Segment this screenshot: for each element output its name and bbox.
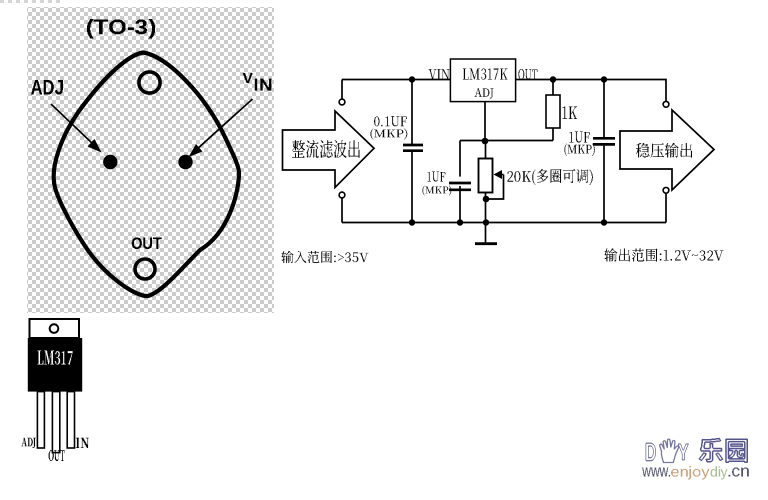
TO-220 leg IN xyxy=(67,392,74,448)
logo letter D xyxy=(646,443,656,462)
potentiometer wiper arrow xyxy=(489,170,504,199)
capacitor C2 plates xyxy=(449,183,471,190)
ground symbol xyxy=(475,223,497,244)
ADJ pointer arrow xyxy=(51,104,102,153)
TO-220 tab xyxy=(30,319,80,338)
capacitor C1 plates xyxy=(403,145,423,151)
TO-3 top mounting hole xyxy=(139,72,160,93)
logo hand icon xyxy=(660,439,679,462)
resistor R1 1K body xyxy=(546,95,560,128)
junction node bottom RP1/gnd xyxy=(483,219,489,225)
wire output stub bottom xyxy=(665,194,667,223)
label OUT (TO-3) xyxy=(132,238,162,249)
wiper junction dot xyxy=(483,196,490,203)
label (MKP) C2 xyxy=(423,186,452,196)
capacitor C1 bottom lead xyxy=(411,152,413,223)
VIN pointer arrow xyxy=(189,99,253,157)
capacitor C2 bottom lead xyxy=(459,186,461,223)
logo url diy xyxy=(711,466,728,479)
input terminal bottom xyxy=(339,192,345,198)
logo 乐园 xyxy=(699,438,749,464)
caption 输出范围:1.2V~32V xyxy=(605,249,724,262)
label ADJ (TO-3) xyxy=(31,80,63,95)
junction node OUT/C3 xyxy=(601,76,607,82)
resistor R1 1K top lead xyxy=(552,80,554,96)
regulator U1 LM317K box xyxy=(450,59,515,102)
label LM317K xyxy=(463,69,508,80)
TO-3 VIN pin dot xyxy=(178,155,192,169)
capacitor C3 1UF top lead xyxy=(603,80,605,138)
label 20K(多圈可调) xyxy=(508,169,594,185)
potentiometer RP1 top lead xyxy=(485,141,487,159)
label 1K xyxy=(563,107,577,120)
junction node bottom C1 xyxy=(409,219,415,225)
wire top rail left xyxy=(342,79,450,81)
capacitor C3 plates xyxy=(593,138,615,144)
wire ADJ row xyxy=(460,140,553,142)
wire input stub top xyxy=(341,80,343,100)
label (TO-3) xyxy=(87,19,155,38)
wire bottom rail xyxy=(342,222,666,224)
output terminal bottom xyxy=(663,187,669,193)
caption 输入范围:>35V xyxy=(282,251,369,263)
label 0.1UF xyxy=(374,116,407,126)
label ADJ (U1) xyxy=(475,88,494,99)
TO-3 package outline xyxy=(54,53,239,297)
label 1UF C2 xyxy=(428,172,446,182)
TO-220 tab hole xyxy=(50,324,59,333)
logo url www. xyxy=(642,468,670,477)
potentiometer RP1 bottom lead xyxy=(485,193,487,223)
junction node ADJ xyxy=(482,138,489,145)
label VIN pin xyxy=(429,69,450,80)
wire input stub bottom xyxy=(341,198,343,223)
junction node bottom C3 xyxy=(601,219,607,225)
junction node VIN rail/C1 xyxy=(409,76,415,82)
label (MKP) C3 xyxy=(565,144,595,156)
checker backdrop xyxy=(27,7,274,313)
junction node bottom C2 xyxy=(457,219,463,225)
pin label OUT xyxy=(49,450,65,461)
output terminal top xyxy=(663,101,669,107)
label 1UF C3 xyxy=(570,132,591,143)
pin label ADJ xyxy=(21,438,35,448)
label OUT pin xyxy=(519,69,538,80)
input terminal top xyxy=(339,99,345,105)
capacitor C2 1UF top lead xyxy=(459,141,461,177)
TO-220 body xyxy=(28,338,82,392)
label VIN (TO-3) xyxy=(243,73,272,91)
label LM317 on body xyxy=(37,351,72,365)
logo url .cn xyxy=(729,468,749,477)
capacitor C3 bottom lead xyxy=(603,146,605,223)
TO-220 leg OUT xyxy=(52,392,59,453)
pin label IN xyxy=(76,438,89,448)
wire ADJ lead xyxy=(484,102,486,141)
label (MKP) C1 xyxy=(371,129,408,140)
resistor R1 bottom lead xyxy=(552,128,554,141)
capacitor C1 0.1UF top lead xyxy=(411,80,413,145)
TO-3 bottom mounting hole xyxy=(135,259,155,279)
TO-220 leg ADJ xyxy=(37,392,44,448)
junction node OUT/R1 xyxy=(550,76,556,82)
input block arrow 整流滤波出 xyxy=(283,111,375,188)
logo letter Y xyxy=(678,444,689,461)
output block arrow 稳压输出 xyxy=(620,110,714,190)
wire top rail right xyxy=(516,80,666,102)
logo url enjoy xyxy=(671,466,710,479)
potentiometer RP1 body xyxy=(479,159,493,193)
TO-3 ADJ pin dot xyxy=(103,155,117,169)
